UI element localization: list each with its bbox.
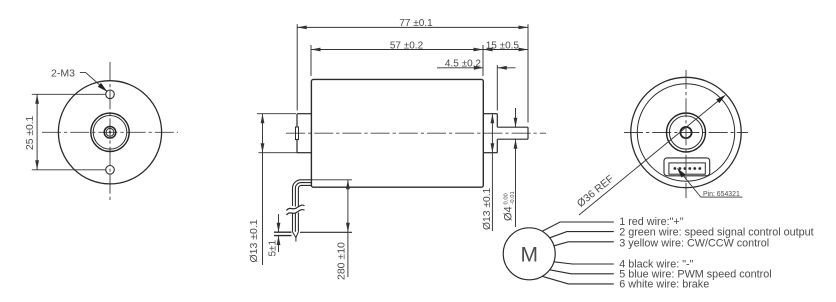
- wire 5: [550, 270, 614, 274]
- centerline horizontal right view: [624, 132, 748, 134]
- svg-text:M: M: [520, 243, 538, 266]
- dim 5±1 ext lines: [274, 232, 292, 235]
- dim 25 extension bottom: [32, 169, 106, 171]
- svg-text:15 ±0.5: 15 ±0.5: [486, 40, 520, 51]
- pin leader: [679, 170, 743, 197]
- wire bundle inner bend: [298, 185, 312, 207]
- svg-text:Pin: 654321: Pin: 654321: [703, 191, 740, 198]
- svg-text:77 ±0.1: 77 ±0.1: [399, 18, 433, 29]
- center dot: [109, 131, 111, 133]
- wire 3: [554, 242, 614, 246]
- svg-text:Ø13 ±0.1: Ø13 ±0.1: [248, 219, 260, 262]
- svg-text:Ø4: Ø4: [503, 206, 515, 221]
- centerline vertical right view: [685, 70, 687, 198]
- centerline horizontal left view: [42, 131, 178, 133]
- rear outer circle: [631, 77, 741, 187]
- wire lower verticals: [293, 213, 299, 232]
- rear boss top: [297, 113, 311, 115]
- motor symbol circle: [503, 228, 555, 280]
- shaft bottom: [497, 138, 528, 140]
- dim 15 line: [483, 49, 528, 51]
- dim 4.5 line with arrows outside: [437, 67, 516, 69]
- front boss face: [496, 114, 498, 153]
- dim 280 line: [347, 180, 349, 277]
- dim 57 line: [311, 49, 483, 51]
- svg-text:0.00: 0.00: [503, 193, 509, 204]
- wire tip: [293, 232, 299, 242]
- svg-text:2-M3: 2-M3: [51, 68, 75, 80]
- mounting hole bottom M3: [106, 166, 115, 175]
- front hub ring inner: [93, 116, 127, 150]
- dim Ø4 line: [515, 108, 517, 227]
- wire 4: [554, 262, 614, 264]
- dim 77 ext left (rear boss face): [296, 24, 298, 110]
- rear hub ring outer: [667, 113, 706, 152]
- dim Ø13 right line: [491, 114, 493, 231]
- svg-text:Ø13 ±0.1: Ø13 ±0.1: [482, 187, 493, 230]
- shaft boss circle: [104, 127, 116, 139]
- dim 280 ext bottom: [300, 231, 352, 233]
- dim 57/15 ext middle: [482, 45, 484, 76]
- wire 6: [542, 276, 614, 284]
- svg-text:-0.01: -0.01: [510, 191, 516, 204]
- svg-text:280 ±10: 280 ±10: [336, 242, 348, 280]
- svg-text:57 ±0.2: 57 ±0.2: [390, 40, 424, 51]
- wire break symbol: [287, 205, 305, 210]
- motor body outline: [311, 79, 483, 187]
- svg-text:25 ±0.1: 25 ±0.1: [25, 115, 36, 150]
- svg-text:4.5 ±0.2: 4.5 ±0.2: [445, 59, 482, 70]
- wire labels: [619, 216, 813, 291]
- motor body circle front view: [58, 81, 161, 184]
- dim 25 line: [36, 94, 38, 170]
- shaft top: [497, 126, 528, 128]
- wire bundle middle bend: [295, 183, 312, 207]
- svg-text:6 white wire: brake: 6 white wire: brake: [619, 279, 709, 291]
- svg-text:3 yellow wire: CW/CCW control: 3 yellow wire: CW/CCW control: [619, 237, 769, 249]
- wire 1: [542, 222, 614, 231]
- connector pins: [674, 167, 702, 170]
- centerline vertical left view: [109, 62, 111, 202]
- Ø36 REF leader line: [579, 97, 723, 215]
- dim 5±1 line: [278, 214, 280, 252]
- shaft end: [527, 127, 529, 139]
- wire 2: [550, 232, 614, 238]
- dim Ø13 left line: [262, 114, 264, 265]
- mounting hole top M3: [106, 90, 115, 99]
- dim 4.5 ext right (boss face): [496, 65, 498, 111]
- dim Ø13 left ext top: [257, 113, 296, 115]
- rear boss bottom: [297, 152, 311, 154]
- connector inner: [669, 163, 705, 174]
- centerline axis: [286, 132, 546, 134]
- dim 77 line: [297, 26, 528, 28]
- dim text Ø4 0/-0.01: [503, 191, 516, 221]
- wire bundle outer bend: [293, 180, 313, 206]
- rear shaft circle: [680, 127, 691, 138]
- rear inner circle: [637, 84, 734, 181]
- rear bearing stub: [296, 127, 299, 140]
- front hub ring outer: [91, 113, 129, 151]
- connector housing: [664, 158, 710, 176]
- svg-text:Ø36 REF: Ø36 REF: [575, 173, 616, 210]
- front boss top: [483, 113, 497, 115]
- dim Ø13 left ext bottom: [259, 152, 300, 154]
- svg-text:5±1: 5±1: [268, 239, 279, 256]
- leader 2-M3: [80, 73, 107, 92]
- rear boss face: [296, 114, 298, 153]
- dim 280 ext top: [312, 179, 352, 181]
- front boss bottom: [483, 152, 497, 154]
- shaft circle: [106, 128, 114, 136]
- dim 25 extension top: [32, 93, 106, 95]
- dim 57 ext left: [310, 45, 312, 76]
- dim 77 ext right (shaft tip): [527, 24, 529, 122]
- rear hub ring inner: [669, 116, 702, 149]
